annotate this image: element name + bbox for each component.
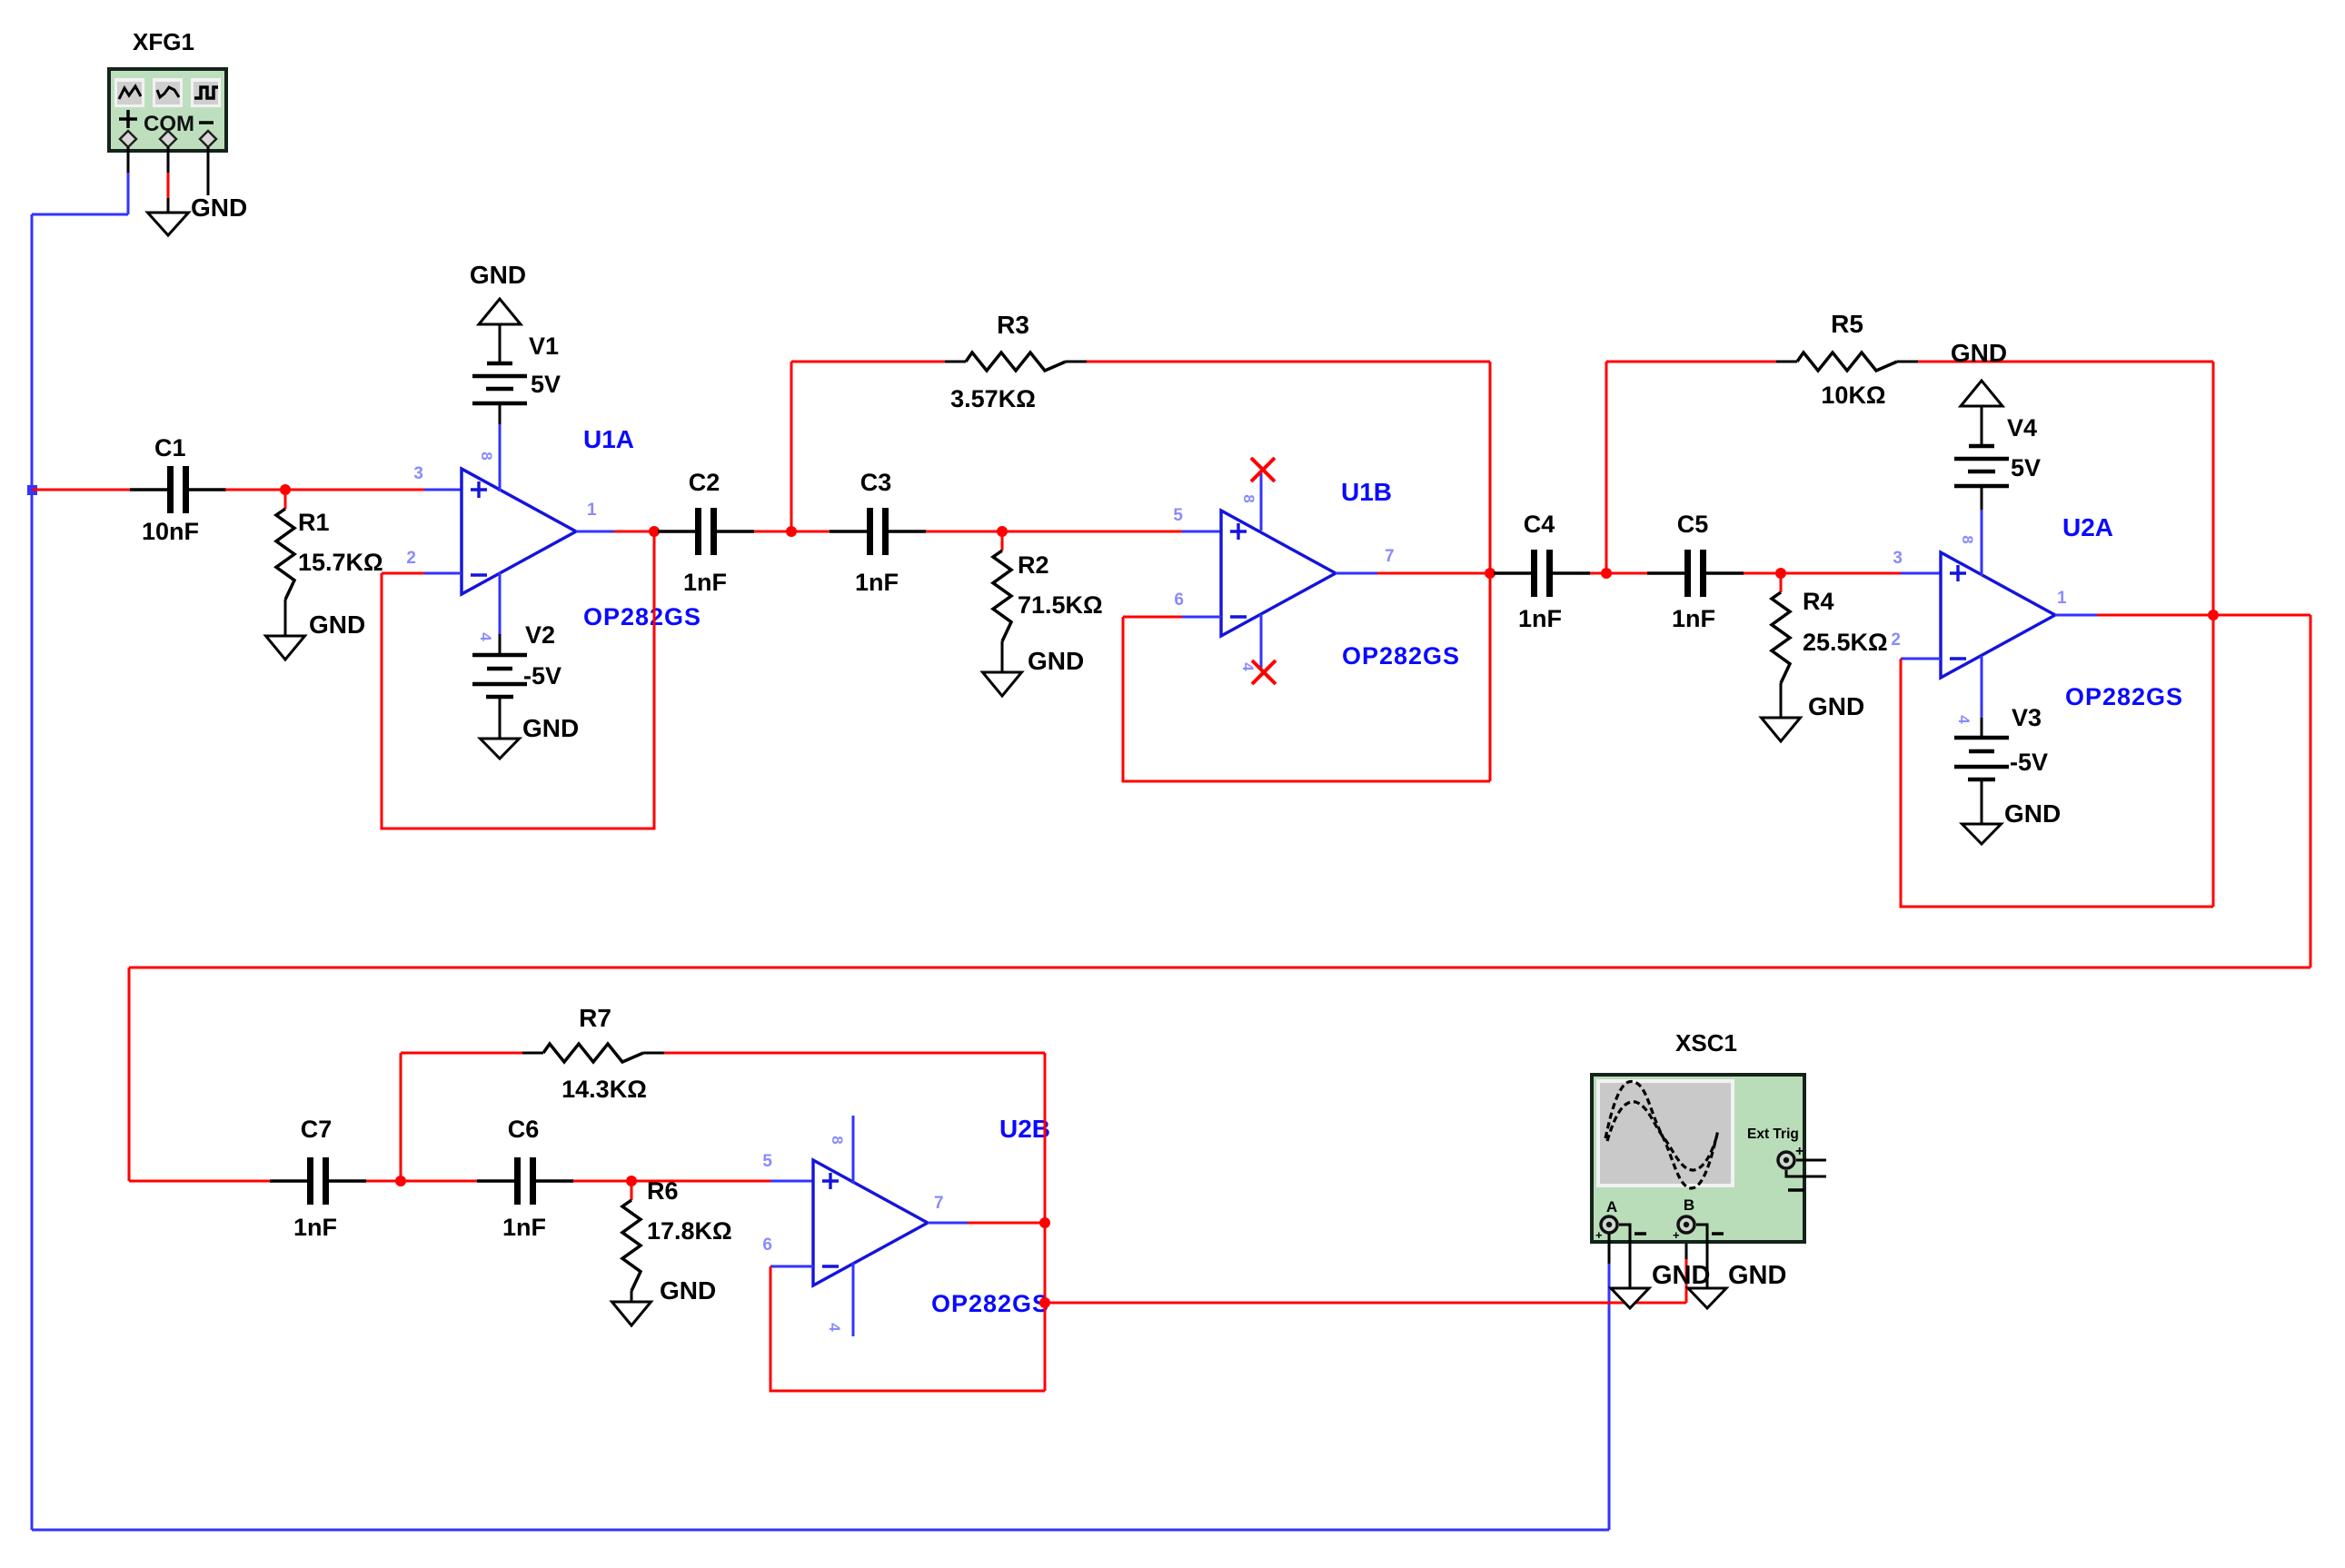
- wire U1B inverting input: [1123, 616, 1221, 619]
- U2B V- pin marker: [826, 1323, 843, 1332]
- U2B pin 7 number: [934, 1194, 944, 1213]
- GND label at R4: [1808, 692, 1864, 720]
- R2 label: [1018, 551, 1049, 579]
- GND label scope B: [1728, 1261, 1786, 1290]
- wire blue left vertical: [31, 214, 34, 1530]
- R1 label: [298, 509, 330, 536]
- svg-text:B: B: [1684, 1196, 1694, 1214]
- ground scope B: [1688, 1288, 1726, 1308]
- svg-text:1nF: 1nF: [1672, 605, 1715, 632]
- svg-text:XFG1: XFG1: [133, 28, 194, 55]
- svg-text:GND: GND: [1728, 1261, 1786, 1290]
- R4 value: [1803, 629, 1888, 656]
- wire U2B out to scope B: [1045, 1302, 1686, 1305]
- wire node to C5: [1606, 572, 1647, 575]
- GND label above V4: [1951, 339, 2007, 367]
- V1 value 5V: [531, 371, 561, 398]
- wire R5/out right vertical: [2212, 362, 2215, 907]
- U2A V- pin marker: [1955, 715, 1972, 724]
- svg-text:GND: GND: [309, 610, 365, 639]
- wire C4 to R5 node: [1590, 572, 1606, 575]
- wire U2A V- to V3: [1981, 656, 1983, 738]
- capacitor C6: [477, 1157, 573, 1205]
- svg-text:OP282GS: OP282GS: [931, 1290, 1049, 1317]
- svg-text:-5V: -5V: [2010, 749, 2048, 776]
- wire U1A inverting input: [382, 572, 462, 575]
- ground R2: [983, 672, 1022, 696]
- battery V2: [472, 655, 527, 697]
- wire V1 to U1A V+: [499, 403, 502, 491]
- svg-text:3: 3: [1893, 549, 1903, 568]
- U2B V+ pin marker: [829, 1136, 846, 1144]
- XFG1 plus label: [119, 110, 137, 128]
- wire R3/C4 right vertical: [1489, 362, 1492, 781]
- U2B label: [999, 1115, 1050, 1143]
- V4 value 5V: [2011, 454, 2041, 481]
- svg-text:5: 5: [762, 1152, 772, 1171]
- V2 value -5V: [523, 662, 561, 690]
- GND label at XFG1: [191, 194, 247, 222]
- wire R3 left segment: [791, 361, 966, 363]
- op-amp U2B: [813, 1160, 928, 1285]
- GND label at R1: [309, 610, 365, 639]
- ground XFG1 COM: [148, 213, 189, 235]
- XSC1 Ext Trig terminal: [1778, 1152, 1794, 1168]
- U1A pin 2 number: [406, 549, 416, 568]
- wire output to C4: [1490, 572, 1494, 575]
- node R3 junction: [786, 526, 797, 537]
- svg-text:6: 6: [762, 1236, 772, 1255]
- XFG1 COM label: [144, 112, 194, 136]
- node U2A output junction: [2208, 610, 2219, 620]
- svg-text:4: 4: [826, 1323, 843, 1332]
- node R6 junction: [626, 1176, 637, 1186]
- wire R3 left vertical: [790, 362, 793, 531]
- svg-text:V2: V2: [525, 621, 555, 649]
- XFG1 + terminal: [120, 131, 136, 147]
- wire U2A feedback loop: [1901, 659, 2213, 907]
- wire GND to V1: [499, 324, 502, 363]
- svg-text:14.3KΩ: 14.3KΩ: [561, 1076, 647, 1103]
- capacitor C7: [270, 1157, 366, 1205]
- GND label at R2: [1028, 647, 1084, 675]
- svg-text:25.5KΩ: 25.5KΩ: [1803, 629, 1888, 656]
- svg-text:GND: GND: [1652, 1261, 1710, 1290]
- XFG1 triangle button: [153, 78, 183, 107]
- XSC1 B minus: [1712, 1232, 1724, 1236]
- wire output to C2: [654, 531, 658, 533]
- svg-text:C7: C7: [301, 1116, 333, 1143]
- svg-text:+: +: [1795, 1144, 1803, 1159]
- U1B part number OP282GS: [1342, 642, 1460, 670]
- XSC1 waveform B: [1607, 1102, 1717, 1170]
- svg-text:1: 1: [587, 501, 597, 520]
- U2A pin 2 number: [1891, 630, 1901, 650]
- svg-text:GND: GND: [660, 1276, 716, 1305]
- svg-text:C2: C2: [689, 469, 720, 496]
- wire node to U2B pin5: [631, 1180, 813, 1183]
- capacitor C3: [830, 508, 926, 555]
- R2 value: [1018, 591, 1103, 619]
- wire U2A inverting input: [1901, 658, 1941, 660]
- C5 value 1nF: [1672, 605, 1715, 632]
- wire R3 right segment: [1066, 361, 1490, 363]
- wire U1A V- to V2: [499, 572, 502, 655]
- XSC1 Ext Trig minus: [1788, 1188, 1804, 1192]
- U1A label: [583, 425, 634, 453]
- op-amp U1A: [462, 469, 576, 594]
- U1B pin 5 number: [1173, 506, 1183, 525]
- XFG1 - terminal: [200, 131, 216, 147]
- wire A minus lead: [1619, 1225, 1630, 1288]
- wire R5 left segment: [1606, 361, 1797, 363]
- XFG1 square button: [191, 78, 221, 107]
- wire U2B feedback loop: [770, 1266, 1045, 1391]
- svg-text:5V: 5V: [2011, 454, 2041, 481]
- U1B pin 7 number: [1385, 547, 1395, 566]
- svg-text:5V: 5V: [531, 371, 561, 398]
- svg-text:5: 5: [1173, 506, 1183, 525]
- svg-text:R4: R4: [1803, 588, 1834, 615]
- wire Ext Trig lower stub: [1786, 1170, 1826, 1176]
- battery V1: [472, 363, 527, 403]
- wire long link right vertical: [2310, 615, 2312, 968]
- wire U2B inverting input: [770, 1265, 813, 1268]
- svg-text:R5: R5: [1831, 310, 1863, 338]
- wire blue bottom horizontal: [32, 1529, 1609, 1532]
- svg-text:R6: R6: [647, 1177, 679, 1205]
- resistor R5: [1797, 352, 1897, 371]
- wire U2A output: [2055, 614, 2310, 617]
- wire C6 to R6 node: [573, 1180, 631, 1183]
- U1A pin 1 number: [587, 501, 597, 520]
- svg-text:GND: GND: [1028, 647, 1084, 675]
- ground V1 (up): [479, 299, 521, 324]
- node U2B scope tap: [1039, 1297, 1050, 1308]
- XFG1 label: [133, 28, 194, 55]
- C7 label: [301, 1116, 333, 1143]
- C3 value 1nF: [855, 569, 899, 596]
- U2A V+ pin marker: [1959, 535, 1976, 543]
- battery V3: [1954, 738, 2009, 779]
- C2 value 1nF: [683, 569, 727, 596]
- wire node to U1A pin3: [285, 489, 462, 491]
- wire V3 to ground: [1981, 779, 1983, 824]
- XSC1 B plus: [1673, 1228, 1680, 1242]
- U2A part number OP282GS: [2065, 683, 2183, 710]
- wire C3 to R2 node: [926, 531, 1002, 533]
- no-connect X upper U1B: [1251, 458, 1275, 481]
- no-connect X lower U1B: [1252, 660, 1276, 684]
- C4 value 1nF: [1518, 605, 1562, 632]
- svg-text:17.8KΩ: 17.8KΩ: [647, 1217, 732, 1245]
- resistor R4: [1772, 573, 1790, 718]
- wire C7 to R7 node: [366, 1180, 401, 1183]
- V2 label: [525, 621, 555, 649]
- XSC1 display: [1596, 1079, 1734, 1187]
- svg-text:1nF: 1nF: [855, 569, 899, 596]
- wire R7 right segment: [643, 1052, 1045, 1055]
- GND label at V2: [522, 714, 579, 742]
- U1B V+ pin marker: [1240, 494, 1257, 502]
- wire U1A feedback loop: [382, 531, 654, 829]
- wire B minus lead: [1696, 1225, 1707, 1288]
- C7 value 1nF: [293, 1214, 337, 1241]
- wire U1B output: [1336, 572, 1490, 575]
- U1B V- pin marker: [1239, 662, 1257, 671]
- U1B label: [1341, 478, 1392, 506]
- svg-text:GND: GND: [522, 714, 579, 742]
- svg-text:GND: GND: [191, 194, 247, 222]
- svg-text:C5: C5: [1677, 511, 1709, 538]
- XSC1 waveform A: [1605, 1081, 1718, 1188]
- wire node to C6: [401, 1180, 477, 1183]
- wire blue scope-A vertical: [1608, 1229, 1611, 1530]
- svg-text:10nF: 10nF: [142, 518, 199, 545]
- svg-text:U2A: U2A: [2062, 513, 2113, 541]
- capacitor C4: [1494, 550, 1590, 597]
- svg-text:8: 8: [1959, 535, 1976, 543]
- node R1 junction: [280, 484, 291, 495]
- svg-text:1: 1: [2057, 589, 2067, 608]
- svg-text:6: 6: [1174, 590, 1184, 610]
- capacitor C2: [658, 508, 754, 555]
- C6 label: [508, 1116, 540, 1143]
- svg-text:3.57KΩ: 3.57KΩ: [950, 385, 1036, 412]
- capacitor C5: [1647, 550, 1744, 597]
- svg-text:OP282GS: OP282GS: [1342, 642, 1460, 670]
- svg-text:R7: R7: [579, 1004, 611, 1032]
- svg-text:GND: GND: [1951, 339, 2007, 367]
- XFG1 COM terminal: [160, 131, 176, 147]
- wire A plus lead: [1608, 1234, 1611, 1264]
- wire U2B V- stub: [852, 1263, 855, 1336]
- svg-text:GND: GND: [2004, 799, 2061, 828]
- GND label at V3: [2004, 799, 2061, 828]
- svg-text:R2: R2: [1018, 551, 1049, 579]
- wire C2 to R3 node: [754, 531, 791, 533]
- svg-text:GND: GND: [470, 261, 526, 289]
- U1A V+ pin marker: [478, 452, 495, 460]
- C4 label: [1524, 511, 1555, 538]
- svg-text:C1: C1: [154, 434, 186, 461]
- wire C5 to R4 node: [1744, 572, 1781, 575]
- R5 label: [1831, 310, 1863, 338]
- node U1A output junction: [649, 526, 660, 537]
- svg-text:-5V: -5V: [523, 662, 561, 690]
- R3 value: [950, 385, 1036, 412]
- R1 value: [298, 549, 383, 576]
- svg-text:15.7KΩ: 15.7KΩ: [298, 549, 383, 576]
- svg-text:GND: GND: [1808, 692, 1864, 720]
- GND label scope A: [1652, 1261, 1710, 1290]
- node input junction: [27, 485, 37, 495]
- wire V4 to U2A V+: [1981, 486, 1983, 576]
- wire long link left vertical: [128, 968, 131, 1181]
- node R5 junction: [1601, 568, 1612, 579]
- C6 value 1nF: [502, 1214, 546, 1241]
- R3 label: [997, 311, 1029, 339]
- wire R7 left segment: [401, 1052, 543, 1055]
- XSC1 channel B terminal: [1678, 1216, 1694, 1233]
- svg-text:8: 8: [478, 452, 495, 460]
- XSC1 channel A terminal: [1601, 1216, 1617, 1233]
- C1 label: [154, 434, 186, 461]
- XSC1 Ext Trig plus: [1795, 1144, 1803, 1159]
- GND label above V1: [470, 261, 526, 289]
- R5 value: [1821, 382, 1885, 409]
- svg-text:U1A: U1A: [583, 425, 634, 453]
- XSC1 channel A label: [1606, 1198, 1617, 1216]
- node R7 junction: [395, 1176, 406, 1186]
- resistor R6: [622, 1181, 641, 1302]
- svg-text:A: A: [1606, 1198, 1617, 1216]
- svg-text:+: +: [1673, 1228, 1680, 1242]
- svg-text:V1: V1: [529, 332, 559, 360]
- wire XFG1 + lead: [127, 147, 130, 214]
- U2B pin 5 number: [762, 1152, 772, 1171]
- svg-text:8: 8: [829, 1136, 846, 1144]
- svg-text:4: 4: [477, 632, 494, 641]
- svg-text:V3: V3: [2012, 704, 2042, 731]
- wire node to U2A pin3: [1781, 572, 1941, 575]
- ground R4: [1762, 718, 1801, 741]
- C3 label: [860, 469, 892, 496]
- svg-text:1nF: 1nF: [1518, 605, 1562, 632]
- C5 label: [1677, 511, 1709, 538]
- wire XFG1 COM lead: [167, 147, 170, 213]
- U1A pin 3 number: [413, 464, 423, 483]
- op-amp U2A: [1941, 552, 2055, 678]
- svg-text:71.5KΩ: 71.5KΩ: [1018, 591, 1103, 619]
- R7 label: [579, 1004, 611, 1032]
- C2 label: [689, 469, 720, 496]
- U1B pin 6 number: [1174, 590, 1184, 610]
- svg-text:+: +: [1595, 1228, 1603, 1242]
- XSC1 A plus: [1595, 1228, 1603, 1242]
- U2A pin 1 number: [2057, 589, 2067, 608]
- U1A part number OP282GS: [583, 603, 701, 630]
- V3 label: [2012, 704, 2042, 731]
- R6 value: [647, 1217, 732, 1245]
- resistor R3: [966, 352, 1066, 371]
- R4 label: [1803, 588, 1834, 615]
- svg-text:1nF: 1nF: [683, 569, 727, 596]
- svg-text:C3: C3: [860, 469, 892, 496]
- capacitor C1: [130, 466, 226, 513]
- wire node to C3: [791, 531, 830, 533]
- U2A label: [2062, 513, 2113, 541]
- wire U2B output: [928, 1222, 1045, 1225]
- svg-text:U2B: U2B: [999, 1115, 1050, 1143]
- wire U1A output: [576, 531, 654, 533]
- resistor R1: [276, 490, 294, 636]
- svg-text:2: 2: [406, 549, 416, 568]
- instrument XSC1 oscilloscope body: [1592, 1075, 1804, 1242]
- svg-text:2: 2: [1891, 630, 1901, 650]
- svg-text:7: 7: [1385, 547, 1395, 566]
- wire U1B feedback loop: [1123, 617, 1490, 781]
- op-amp U1B: [1221, 511, 1336, 636]
- wire GND to V4: [1981, 406, 1983, 446]
- wire R7/out right vertical: [1044, 1053, 1047, 1391]
- XSC1 Ext Trig label: [1747, 1126, 1799, 1142]
- ground scope A: [1611, 1288, 1649, 1308]
- ground V4 (up): [1961, 381, 2002, 406]
- wire link to C7: [129, 1180, 270, 1183]
- wire node to U1B pin5: [1002, 531, 1221, 533]
- wire XFG1 - stub: [207, 147, 210, 195]
- ground R6: [612, 1302, 651, 1325]
- svg-text:3: 3: [413, 464, 423, 483]
- svg-text:1nF: 1nF: [502, 1214, 546, 1241]
- V1 label: [529, 332, 559, 360]
- XFG1 sine button: [114, 78, 144, 107]
- svg-text:R1: R1: [298, 509, 330, 536]
- C1 value 10nF: [142, 518, 199, 545]
- wire long link horizontal: [129, 967, 2310, 969]
- svg-text:R3: R3: [997, 311, 1029, 339]
- node U2B output junction: [1039, 1217, 1050, 1228]
- svg-text:10KΩ: 10KΩ: [1821, 382, 1885, 409]
- resistor R7: [543, 1044, 643, 1062]
- wire U2B V+ stub: [852, 1116, 855, 1184]
- svg-text:OP282GS: OP282GS: [583, 603, 701, 630]
- battery V4: [1954, 446, 2009, 486]
- R6 label: [647, 1177, 679, 1205]
- svg-text:XSC1: XSC1: [1675, 1029, 1737, 1057]
- R7 value: [561, 1076, 647, 1103]
- svg-text:8: 8: [1240, 494, 1257, 502]
- svg-text:1nF: 1nF: [293, 1214, 337, 1241]
- XSC1 channel B label: [1684, 1196, 1694, 1214]
- wire U1B V+ stub: [1260, 473, 1263, 531]
- svg-text:C4: C4: [1524, 511, 1555, 538]
- node U1B output junction: [1485, 568, 1495, 579]
- U2B part number OP282GS: [931, 1290, 1049, 1317]
- XSC1 label: [1675, 1029, 1737, 1057]
- V4 label: [2007, 414, 2037, 442]
- U2A pin 3 number: [1893, 549, 1903, 568]
- U1A V- pin marker: [477, 632, 494, 641]
- svg-text:C6: C6: [508, 1116, 540, 1143]
- ground V3: [1962, 824, 2002, 844]
- U2B pin 6 number: [762, 1236, 772, 1255]
- ground V2: [481, 739, 520, 759]
- svg-text:7: 7: [934, 1194, 944, 1213]
- GND label at R6: [660, 1276, 716, 1305]
- wire R7 left vertical: [400, 1053, 402, 1181]
- wire R5 left vertical: [1605, 362, 1608, 573]
- XSC1 A minus: [1635, 1232, 1646, 1236]
- node R2 junction: [997, 526, 1008, 537]
- wire blue XFG+ horizontal: [32, 213, 128, 216]
- instrument XFG1 function generator body: [109, 69, 226, 151]
- ground R1: [266, 636, 305, 660]
- wire R5 right segment: [1897, 361, 2213, 363]
- svg-text:V4: V4: [2007, 414, 2037, 442]
- svg-text:U1B: U1B: [1341, 478, 1392, 506]
- wire scope B riser: [1685, 1230, 1688, 1303]
- wire C1 to R1 node: [225, 489, 285, 491]
- wire U1B V- stub: [1260, 614, 1263, 669]
- svg-text:OP282GS: OP282GS: [2065, 683, 2183, 710]
- resistor R2: [993, 531, 1011, 672]
- svg-text:Ext Trig: Ext Trig: [1747, 1126, 1799, 1142]
- node R4 junction: [1775, 568, 1786, 579]
- XFG1 minus label: [199, 121, 214, 124]
- V3 value -5V: [2010, 749, 2048, 776]
